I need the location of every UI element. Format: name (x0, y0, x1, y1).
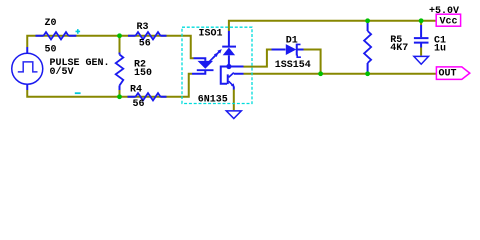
wire: base junction to transistor base (221, 67, 229, 84)
svg-text:56: 56 (133, 99, 145, 110)
diode D1 leads (272, 49, 304, 51)
opto LED triangle (198, 61, 214, 69)
pulse generator waveform symbol (18, 62, 38, 72)
diode D1 schottky hooks (297, 44, 301, 57)
capacitor C1 plates (414, 38, 429, 43)
junction dot R5 top (365, 18, 370, 23)
resistor Z0 leads (36, 35, 77, 37)
emitter arrowhead (231, 83, 235, 87)
junction dot left bottom (117, 94, 122, 99)
transistor collector pin to rail (234, 73, 244, 75)
diode D1 cathode bar (296, 44, 298, 56)
pulse generator top lead (26, 47, 28, 53)
svg-text:Vcc: Vcc (440, 17, 458, 28)
wire: C1 stubs (420, 22, 422, 56)
svg-text:56: 56 (139, 39, 151, 50)
svg-text:1u: 1u (434, 43, 446, 54)
pulse generator V1 circle (12, 53, 43, 84)
junction dot left top (117, 33, 122, 38)
LED light arrow lower (209, 55, 216, 62)
svg-text:D1: D1 (286, 35, 298, 46)
junction dot D1 to rail (318, 71, 323, 76)
wire: bottom rail from pulse gen to LED cathode riser (27, 74, 192, 97)
svg-text:4K7: 4K7 (390, 43, 408, 54)
transistor Q emitter (229, 81, 234, 86)
svg-text:0/5V: 0/5V (50, 66, 74, 78)
svg-text:Z0: Z0 (45, 18, 57, 29)
wire: R2 column stubs (119, 37, 121, 96)
resistor R2 leads (119, 53, 121, 91)
opto LED anode lead (194, 58, 206, 61)
svg-text:OUT: OUT (439, 69, 457, 80)
LED light arrow upper (213, 52, 220, 59)
resistor R4 leads (128, 96, 167, 98)
wire: pulse gen top to R3 rail with drop to LED (27, 36, 193, 59)
photodiode top lead (228, 31, 230, 46)
photodiode triangle (223, 48, 235, 56)
ISO1 dashed package box (182, 27, 252, 103)
svg-text:R3: R3 (137, 22, 149, 33)
capacitor C1 top lead (420, 25, 422, 37)
wire: opto emitter to ground (233, 90, 235, 111)
svg-text:+5.0V: +5.0V (429, 6, 459, 17)
ground under C1 (414, 56, 429, 64)
resistor R4 zigzag (136, 93, 161, 100)
emitter lead down (233, 87, 235, 90)
wire: base junction to right (blue pin) (229, 66, 244, 68)
node base junction dot (226, 64, 231, 69)
wire: D1 cathode down to output rail (304, 50, 321, 74)
resistor R2 zigzag (116, 55, 124, 86)
photodiode anode lead (228, 55, 230, 66)
resistor R5 zigzag (364, 31, 371, 63)
resistor Z0 zigzag (44, 32, 69, 39)
svg-text:50: 50 (45, 45, 57, 56)
Vcc flag box (436, 14, 460, 26)
ground under opto (226, 111, 241, 119)
svg-text:150: 150 (134, 68, 152, 79)
resistor R3 zigzag (136, 32, 161, 39)
wire: output rail to OUT flag (244, 73, 437, 75)
resistor R5 leads (367, 22, 369, 73)
photodiode cathode bar (222, 46, 236, 48)
opto LED cathode lead (192, 70, 205, 74)
plus polarity mark (76, 29, 81, 34)
OUT flag (436, 67, 469, 80)
svg-text:6N135: 6N135 (198, 95, 228, 106)
capacitor C1 bottom lead (420, 44, 422, 48)
wire: base node to D1 anode (244, 50, 272, 67)
transistor Q collector (229, 73, 234, 78)
diode D1 triangle (286, 44, 297, 55)
junction dot R5 bottom (365, 71, 370, 76)
transistor Q base bar (227, 74, 229, 84)
opto LED cathode bar (197, 69, 214, 71)
svg-text:ISO1: ISO1 (199, 29, 223, 40)
wire: Vcc top rail (229, 21, 436, 31)
pulse generator bottom lead (26, 84, 28, 90)
minus polarity mark (75, 92, 81, 94)
junction dot C1 top (419, 18, 424, 23)
svg-text:1SS154: 1SS154 (275, 60, 311, 71)
resistor R3 leads (128, 35, 167, 37)
svg-text:R4: R4 (130, 85, 142, 96)
